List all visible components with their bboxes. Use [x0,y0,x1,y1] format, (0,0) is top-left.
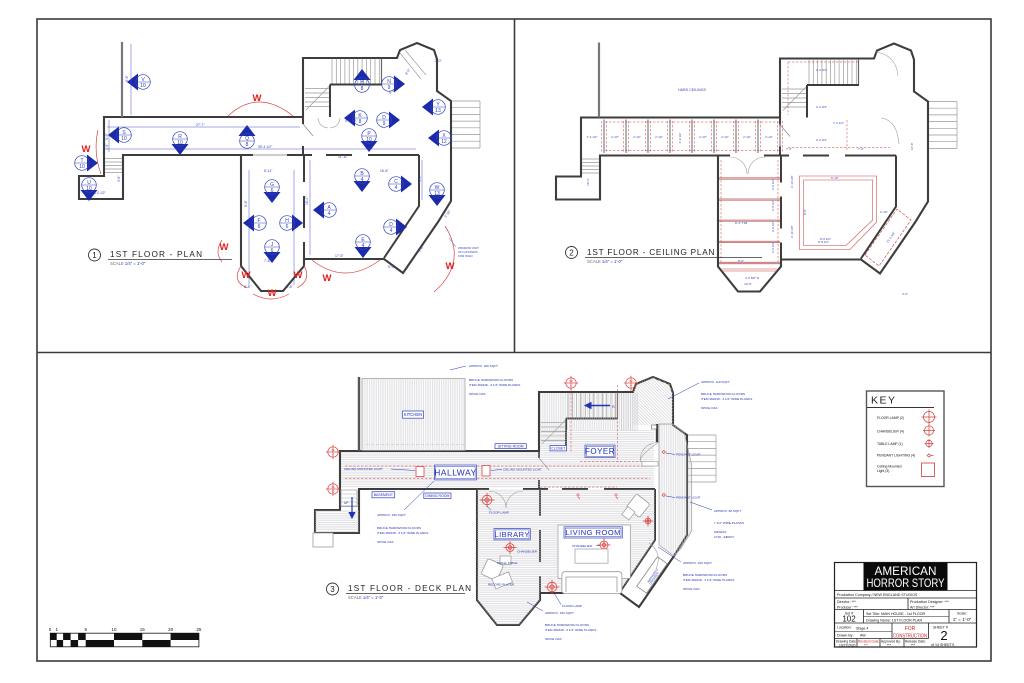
svg-text:SMALL TABLE: SMALL TABLE [497,561,517,565]
svg-text:6: 6 [258,224,261,230]
svg-text:Release Date:: Release Date: [905,640,926,644]
panel divider horizontal [37,352,991,354]
svg-text:BRUCE HARDWOOD FLOORS: BRUCE HARDWOOD FLOORS [545,623,589,627]
svg-text:1: 1 [92,251,97,260]
svg-text:5'-6": 5'-6" [244,199,248,207]
svg-text:Director: ***: Director: *** [837,600,856,604]
svg-text:HORROR STORY: HORROR STORY [867,576,945,590]
basement stoop [341,490,357,506]
svg-text:ITEM 482448 - 3 1/4" WIDE PLAN: ITEM 482448 - 3 1/4" WIDE PLANKS [701,397,752,401]
svg-text:LIVING ROOM: LIVING ROOM [565,528,621,537]
svg-text:CHANDELIER: CHANDELIER [572,544,593,548]
sitting room label [495,444,526,449]
svg-text:10: 10 [86,186,92,192]
svg-text:FOR: FOR [905,626,916,632]
svg-text:SCALE 1/4" = 1'-0": SCALE 1/4" = 1'-0" [348,595,384,600]
svg-text:16'-0": 16'-0" [305,196,309,205]
svg-text:2'-10": 2'-10" [655,135,663,139]
svg-text:4'-9 1/2": 4'-9 1/2" [678,133,682,144]
front step [642,462,658,467]
svg-text:Production Designer: ***: Production Designer: *** [910,600,949,604]
svg-text:4'-1 1/2": 4'-1 1/2" [345,119,358,123]
svg-text:5'-0": 5'-0" [388,265,396,269]
svg-text:2'-0 1/2": 2'-0 1/2" [771,200,775,211]
svg-text:W: W [268,288,277,299]
svg-text:Light (3): Light (3) [877,469,889,473]
title panel 1 [89,249,233,266]
svg-text:Production Company / NEW ENGLA: Production Company / NEW ENGLAND STUDIOS [837,593,918,597]
svg-text:RECORD PLAYER: RECORD PLAYER [488,583,515,587]
stage light S1 [326,445,340,459]
svg-text:10: 10 [177,140,183,146]
svg-text:CHANDELIER: CHANDELIER [517,550,538,554]
svg-text:T: T [80,158,83,164]
svg-text:2'-2 3/4": 2'-2 3/4" [816,105,827,109]
svg-text:SPICE OAK: SPICE OAK [377,540,395,544]
svg-text:10: 10 [366,137,372,143]
light symbol W/13 [429,183,446,206]
svg-text:W: W [435,185,440,191]
svg-text:1ST FLOOR - CEILING PLAN: 1ST FLOOR - CEILING PLAN [587,248,715,257]
svg-text:SPICE OAK: SPICE OAK [683,587,701,591]
svg-text:SITTING ROOM: SITTING ROOM [498,444,524,448]
svg-text:2'-10": 2'-10" [880,210,888,214]
svg-text:4: 4 [395,185,398,191]
svg-text:2'-2 3/4": 2'-2 3/4" [816,68,827,72]
west stoop [313,533,333,547]
svg-text:FLOOR LAMP: FLOOR LAMP [562,604,582,608]
svg-text:Location:: Location: [837,626,852,630]
svg-text:PENDANT LIGHT: PENDANT LIGHT [676,496,701,500]
svg-text:ITEM 482448 - 3 1/4" WIDE PLAN: ITEM 482448 - 3 1/4" WIDE PLANKS [469,383,520,387]
svg-text:N: N [387,79,391,85]
kitchen west wall [358,377,360,451]
svg-text:KEY: KEY [871,395,897,407]
svg-text:BASEMENT: BASEMENT [374,493,394,497]
svg-text:H: H [285,218,289,224]
svg-text:BRUCE HARDWOOD FLOORS: BRUCE HARDWOOD FLOORS [701,392,745,396]
svg-text:27'-7": 27'-7" [196,123,205,127]
chandelier living [598,539,611,552]
svg-text:W: W [82,144,91,155]
svg-text:9'-6": 9'-6" [105,132,109,140]
foyer entry door arcs [318,118,340,128]
record player [492,572,513,589]
svg-text:2'-0 1/2": 2'-0 1/2" [771,242,775,253]
svg-text:2718 - EBONY: 2718 - EBONY [714,535,734,539]
corridor bay dimension labels [586,133,773,186]
svg-text:W: W [294,270,303,281]
svg-text:5'-8": 5'-8" [286,285,294,289]
light symbol Y/13 [422,99,445,116]
basement label [372,492,395,498]
svg-text:CLOSET: CLOSET [551,447,566,451]
svg-text:ITEM 482448 - 3 1/4" WIDE PLAN: ITEM 482448 - 3 1/4" WIDE PLANKS [377,531,428,535]
svg-text:APPROX. 180 SQFT: APPROX. 180 SQFT [469,364,498,368]
row company [835,590,977,592]
svg-text:2'-10": 2'-10" [743,135,751,139]
corridor ceiling bay dividers [604,120,780,154]
svg-text:16'-8": 16'-8" [380,169,389,173]
svg-text:FOR WILD: FOR WILD [458,254,473,258]
up arrow foyer stairs [585,403,610,409]
svg-text:SCALE 1/4" = 1'-0": SCALE 1/4" = 1'-0" [587,259,623,264]
light symbol P/10 [361,129,378,152]
svg-text:6: 6 [286,224,289,230]
svg-text:H: H [360,80,364,86]
light symbol N/9 [382,76,405,93]
hallway deck [341,452,654,488]
library deck [477,489,540,625]
light symbol F/6 [243,215,266,232]
svg-text:HALLWAY: HALLWAY [434,468,477,478]
window unit caster note [458,246,479,258]
AHS banner [864,563,948,591]
svg-text:9'-0": 9'-0" [803,209,807,215]
svg-text:W: W [323,273,332,284]
house outline P1 [79,43,451,291]
small table library [500,556,511,565]
svg-text:4'-0 5/8" R: 4'-0 5/8" R [745,276,760,280]
panel 1 red window swing arcs + W marks [96,102,454,299]
title panel 2 [566,247,763,265]
svg-text:W: W [253,93,262,104]
svg-text:25: 25 [196,627,202,632]
svg-text:6'-10": 6'-10" [831,176,839,180]
bay window ceiling lines [722,269,777,271]
svg-text:Set Title: MAIN HOUSE - 1st: Set Title: MAIN HOUSE - 1st FLOOR [866,612,926,616]
svg-text:APPROX. 80 SQFT: APPROX. 80 SQFT [714,509,741,513]
svg-text:LIBRARY: LIBRARY [494,530,529,539]
svg-text:1ST FLOOR - PLAN: 1ST FLOOR - PLAN [110,250,203,259]
east veranda deck [659,424,692,556]
svg-text:CHANDELIER (4): CHANDELIER (4) [877,430,904,434]
svg-text:AW: AW [860,634,866,638]
svg-text:Producer: ***: Producer: *** [837,605,858,609]
svg-text:8'-4" T1B: 8'-4" T1B [735,221,747,225]
svg-text:8: 8 [359,119,362,125]
tower entry lines [400,50,426,79]
svg-text:10'-6": 10'-6" [586,178,590,186]
svg-text:7'-8": 7'-8" [264,259,272,263]
coffee table [575,549,608,563]
svg-text:Drawn By:: Drawn By: [837,634,854,638]
svg-text:7'-4 1/2": 7'-4 1/2" [587,135,598,139]
svg-text:9'-0": 9'-0" [418,174,422,182]
svg-text:4: 4 [362,243,365,249]
svg-text:R: R [178,134,182,140]
chandelier library [504,541,517,554]
living room tray ceiling rings [800,176,877,250]
svg-text:UP: UP [344,501,348,505]
svg-text:Approved By:: Approved By: [881,640,901,644]
light symbol T/10 [75,155,98,172]
svg-text:4: 4 [328,211,331,217]
svg-text:7'-2 1/2": 7'-2 1/2" [833,121,844,125]
svg-text:SPICE OAK: SPICE OAK [701,406,719,410]
red dashed layout lines [345,385,655,487]
svg-text:15: 15 [140,627,146,632]
library wing ceiling joists [719,178,780,264]
svg-text:2'-10": 2'-10" [699,135,707,139]
svg-text:13: 13 [434,191,440,197]
foyer red dashed ceiling lines [788,62,890,150]
svg-text:8'-0 1/2": 8'-0 1/2" [820,237,831,241]
svg-text:S: S [612,404,615,409]
svg-text:SCALE 1/4" = 1'-0": SCALE 1/4" = 1'-0" [110,261,146,266]
svg-text:S3: S3 [629,379,633,383]
svg-text:S4: S4 [331,485,335,489]
svg-text:APPROX. 110 SQFT: APPROX. 110 SQFT [701,380,730,384]
svg-text:8'-6": 8'-6" [738,259,744,263]
light symbol U/10 [81,178,98,201]
stage light S3 [624,376,638,390]
stage light S2 [564,376,578,390]
svg-text:12: 12 [441,139,447,145]
living room label [564,527,622,538]
sunroom ceiling dashed [865,209,911,266]
light symbol S/10 [108,127,131,144]
svg-text:MINWAX: MINWAX [714,530,727,534]
floor lamp living [545,580,560,595]
svg-text:CEILING MOUNTED LIGHT: CEILING MOUNTED LIGHT [344,467,383,471]
closet label [550,446,567,451]
light symbol E/4 [355,235,372,258]
svg-text:6: 6 [271,188,274,194]
light symbol Q/8 [239,125,256,148]
svg-text:Drawing Name: 1ST FLOOR PLAN: Drawing Name: 1ST FLOOR PLAN [866,619,922,623]
svg-text:8'-0 1/2": 8'-0 1/2" [94,191,106,195]
svg-text:4: 4 [361,177,364,183]
svg-text:SPICE OAK: SPICE OAK [545,637,563,641]
kitchen label [403,411,424,418]
svg-text:FOYER: FOYER [585,447,615,456]
svg-text:SPICE OAK: SPICE OAK [469,392,487,396]
svg-text:W: W [220,242,229,253]
up arrow hallway stairs [349,497,355,518]
svg-text:TABLE LAMP (1): TABLE LAMP (1) [877,442,903,446]
pendant light dots [662,451,666,497]
living room deck [540,489,655,592]
light symbol H/6 [280,215,303,232]
light symbol A/4 [313,202,336,219]
svg-text:10'-6": 10'-6" [744,282,752,286]
svg-text:17'-5": 17'-5" [335,254,344,258]
svg-text:S2: S2 [569,379,573,383]
floor lamp library [480,493,495,508]
svg-text:PENDANT LIGHTING (4): PENDANT LIGHTING (4) [877,454,915,458]
svg-text:2: 2 [940,628,947,643]
octagon tower deck [633,377,673,425]
svg-text:Revision Date:: Revision Date: [858,640,880,644]
svg-text:11'-11": 11'-11" [338,155,349,159]
foyer label [585,445,615,458]
armchair living [626,494,650,518]
svg-text:3'-6": 3'-6" [117,176,121,182]
hallway label [435,465,477,480]
svg-text:10: 10 [140,83,146,89]
foyer front door wall [656,424,658,442]
title panel 3 [327,583,473,600]
panel 1 blue dimension lines [107,44,422,285]
foyer deck [540,430,654,452]
svg-text:10: 10 [121,136,127,142]
svg-text:2'-10": 2'-10" [721,135,729,139]
svg-text:1ST FLOOR - DECK PLAN: 1ST FLOOR - DECK PLAN [348,584,472,593]
drape marks [576,493,618,499]
svg-text:Art Director: ***: Art Director: *** [910,605,935,609]
svg-text:DINING ROOM: DINING ROOM [425,494,449,498]
sunroom door arc [649,543,658,569]
panel divider vertical [514,19,516,353]
foyer door arcs [730,52,899,174]
panel 1 blue dimension texts [105,59,452,289]
light symbol V/10 [127,74,150,91]
svg-text:APPROX. 200 SQFT: APPROX. 200 SQFT [683,561,712,565]
svg-text:2'-10": 2'-10" [611,135,619,139]
svg-text:G: G [270,182,274,188]
svg-text:BRUCE HARDWOOD FLOORS: BRUCE HARDWOOD FLOORS [683,573,727,577]
svg-text:39'-4 1/2": 39'-4 1/2" [258,145,273,149]
library label [494,529,530,540]
svg-text:9: 9 [383,121,386,127]
svg-text:ITEM 482448 - 3 1/4" WIDE PLAN: ITEM 482448 - 3 1/4" WIDE PLANKS [683,578,734,582]
svg-text:3'-0": 3'-0" [435,59,443,63]
svg-text:CEILING MOUNTED LIGHT: CEILING MOUNTED LIGHT [503,467,542,471]
light symbol H/8 [354,69,371,92]
light symbol D/9 [377,112,400,129]
svg-text:Stage 4: Stage 4 [856,627,868,631]
stage light S4 [326,482,340,496]
svg-text:D: D [382,115,386,121]
svg-text:Q: Q [245,136,249,142]
svg-text:FLOOR LAMP: FLOOR LAMP [489,511,509,515]
mirrored dresser [637,557,667,593]
entry strip deck [620,393,638,431]
svg-text:9'-6": 9'-6" [125,74,129,82]
armchair library [481,558,504,581]
svg-text:ITEM 482448 - 3 1/4" WIDE PLAN: ITEM 482448 - 3 1/4" WIDE PLANKS [545,628,596,632]
dining room label [424,493,451,499]
svg-text:20: 20 [168,627,174,632]
svg-text:C: C [394,179,398,185]
svg-text:6: 6 [271,248,274,254]
light symbol B/4 [354,169,371,192]
table lamp [643,516,654,527]
kitchen deck [362,379,465,451]
light symbol R/10 [172,132,189,155]
light symbol C/4 [389,176,412,193]
light symbol D/4 [384,219,407,236]
svg-text:of 14 SHEETS: of 14 SHEETS [931,643,955,647]
light symbol X/12 [428,130,451,147]
svg-text:4: 4 [390,228,393,234]
svg-text:PENDANT LIGHT: PENDANT LIGHT [676,453,701,457]
svg-text:2: 2 [569,249,574,258]
svg-text:W: W [242,270,251,281]
svg-text:FLOOR LAMP (2): FLOOR LAMP (2) [877,416,904,420]
svg-text:2'-10 1/8": 2'-10 1/8" [790,175,794,188]
svg-text:4'-6": 4'-6" [902,292,908,296]
svg-text:D: D [389,222,393,228]
svg-text:8: 8 [246,142,249,148]
svg-text:F: F [257,218,260,224]
light symbol K/8 [344,110,367,127]
sofa [562,572,622,594]
svg-text:2'-10": 2'-10" [765,135,773,139]
svg-text:2'-10": 2'-10" [633,135,641,139]
svg-text:10: 10 [79,164,85,170]
svg-text:8'-11": 8'-11" [264,169,273,173]
svg-text:S1: S1 [331,448,335,452]
svg-text:102: 102 [842,615,856,624]
library double door arcs [489,491,523,508]
svg-text:2'-0 1/2": 2'-0 1/2" [771,179,775,190]
light symbol J/6 [264,240,281,263]
svg-text:BRUCE HARDWOOD FLOORS: BRUCE HARDWOOD FLOORS [469,378,513,382]
living room rug [558,525,630,578]
svg-text:HARD CEILINGS: HARD CEILINGS [678,88,707,92]
svg-text:16'-8": 16'-8" [910,142,914,150]
svg-text:2'-0 1/2": 2'-0 1/2" [771,221,775,232]
svg-text:U: U [87,180,91,186]
svg-text:Ceiling Mounted: Ceiling Mounted [877,465,902,469]
svg-text:APPROX. 180 SQFT: APPROX. 180 SQFT [377,513,406,517]
window lines across library door opening [253,154,287,156]
svg-text:Scale:: Scale: [957,612,967,616]
svg-text:10: 10 [111,627,117,632]
svg-text:KITCHEN: KITCHEN [404,412,422,417]
svg-text:2'-10 1/8": 2'-10 1/8" [790,225,794,238]
foyer east door arc [640,442,659,462]
ottoman [622,507,635,520]
svg-text:8: 8 [361,86,364,92]
svg-text:3'-6": 3'-6" [105,144,109,150]
svg-text:2'-2 3/4": 2'-2 3/4" [816,138,827,142]
svg-text:3: 3 [330,585,335,594]
svg-text:BRUCE HARDWOOD FLOORS: BRUCE HARDWOOD FLOORS [377,526,421,530]
svg-text:W: W [446,261,455,272]
north thin wall [121,42,123,117]
svg-text:13: 13 [435,108,441,114]
landing porch deck [315,510,359,533]
ceiling mounted light squares [416,467,424,477]
svg-text:7 1/4" WIDE PLANKS: 7 1/4" WIDE PLANKS [714,521,744,525]
svg-text:1" = 1'-0": 1" = 1'-0" [953,617,972,622]
sitting area deck [540,393,633,430]
light symbol G/6 [264,180,281,203]
svg-text:APPROX. 160 SQFT: APPROX. 160 SQFT [545,611,574,615]
